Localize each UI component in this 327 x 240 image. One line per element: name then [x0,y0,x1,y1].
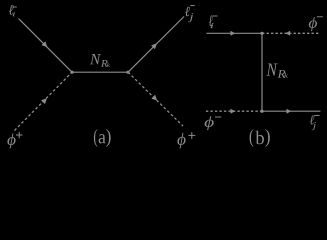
label lepton ell_j^- (b) bottom-right [310,115,320,130]
vertex dot (b) top [260,32,263,35]
arrow on (a) bottom-left scalar line [42,99,47,104]
arrow on (b) bottom-left scalar line [231,109,235,113]
propagator N_Rk vertical line (b) [261,33,263,111]
wire: outgoing lepton line (a) top-right [128,17,184,73]
arrow on (b) bottom-right lepton line [287,109,291,113]
label scalar phi^- (b) top-right [309,17,323,31]
propagator N_Rk internal line (a) [72,71,128,73]
label scalar phi^+ (a) bottom-left [7,132,22,149]
caption (a) [94,129,111,147]
arrow on (b) top-left lepton line [231,31,235,35]
wire: incoming scalar dashed line (a) bottom-left [15,72,73,130]
label N_Rk on propagator (b) [266,64,288,78]
label scalar phi^- (b) bottom-left [205,116,222,130]
label N_Rk on propagator (a) [90,54,110,67]
caption (b) [250,129,270,147]
wire: outgoing scalar dashed line (a) bottom-right [128,72,183,126]
arrow on (b) top-right scalar line, pointing left [286,31,290,35]
label lepton ell_i^- (b) top-left [209,15,218,28]
vertex dot (a) left [70,71,73,74]
wire: incoming lepton line (a) top-left [19,19,72,72]
label scalar phi^+ (a) bottom-right [177,132,195,148]
vertex dot (a) right [126,71,129,74]
wire: incoming lepton line (b) top-left [206,32,262,34]
label lepton ell_j^- (a) top-right [185,6,195,23]
wire: scalar dashed line (b) bottom-left [206,110,262,112]
vertex dot (b) bottom [260,110,263,113]
label lepton ell_i^- (a) top-left [9,5,17,16]
arrow on (a) bottom-right scalar line [152,95,157,100]
wire: outgoing lepton line (b) bottom-right [262,110,320,112]
arrow on (a) top-left lepton line [42,42,47,47]
wire: scalar dashed line (b) top-right [262,32,319,34]
arrow on (a) top-right lepton line [152,44,157,49]
